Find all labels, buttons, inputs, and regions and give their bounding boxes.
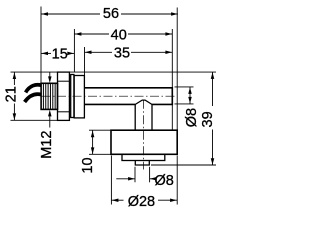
svg-text:M12: M12 <box>39 131 55 159</box>
svg-text:Ø8: Ø8 <box>184 108 200 127</box>
svg-text:Ø8: Ø8 <box>155 173 174 189</box>
svg-text:39: 39 <box>200 111 216 127</box>
svg-text:10: 10 <box>80 157 96 173</box>
svg-text:40: 40 <box>111 28 127 44</box>
svg-text:56: 56 <box>103 6 119 22</box>
svg-text:Ø28: Ø28 <box>128 194 155 210</box>
svg-text:35: 35 <box>114 46 130 62</box>
svg-text:21: 21 <box>4 86 20 102</box>
svg-text:15: 15 <box>52 47 68 63</box>
